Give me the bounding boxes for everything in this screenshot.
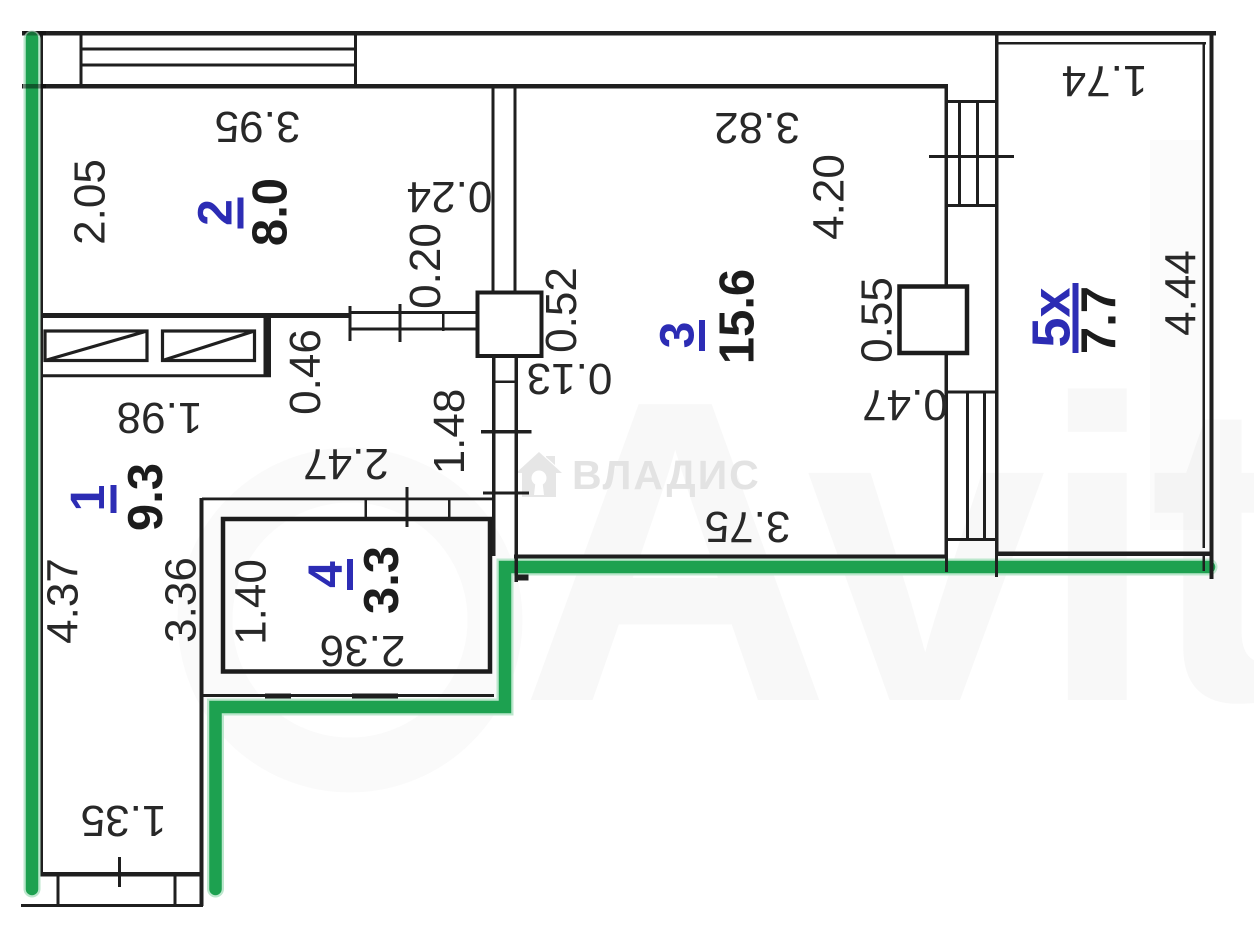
room4 door tick: [406, 487, 409, 527]
svg-text:2.36: 2.36: [320, 626, 406, 675]
sill divider a: [57, 872, 60, 907]
svg-text:3.36: 3.36: [157, 557, 206, 643]
tick over green x997: [995, 556, 998, 577]
room 1 underline: [111, 485, 117, 513]
svg-text:1.74: 1.74: [1062, 56, 1148, 105]
room4 bottom door jamb b: [352, 694, 398, 701]
wall room2 bottom: [40, 313, 350, 318]
wall below S1 left line: [492, 356, 496, 556]
svg-text:4: 4: [300, 561, 353, 588]
window W3 top line: [945, 391, 999, 394]
room 4 underline: [347, 559, 353, 590]
svg-text:3.75: 3.75: [705, 502, 791, 551]
balcony outer right wall: [1210, 31, 1214, 558]
window W1 line a: [80, 48, 357, 51]
green highlight left wall underlay: [24, 39, 41, 889]
wall balcony left: [995, 31, 999, 556]
shaft square S2: [900, 287, 968, 354]
room4 outer top: [202, 498, 494, 501]
tick over green x947: [945, 556, 948, 572]
sill room1 bottom: [21, 904, 203, 907]
tick dimension 4.20: [929, 155, 1014, 158]
room4 inner thick box: [223, 519, 490, 672]
room4 door jamb right: [448, 498, 451, 517]
wall top inner: [22, 84, 948, 89]
svg-text:3: 3: [652, 322, 705, 349]
svg-text:3.3: 3.3: [355, 546, 409, 614]
tick dimension 1.35: [118, 857, 121, 887]
svg-text:8.0: 8.0: [244, 178, 298, 246]
green highlight bottom path underlay: [216, 567, 1210, 889]
wall thin double upper: [350, 311, 478, 314]
svg-text:1.40: 1.40: [227, 559, 276, 645]
svg-text:9.3: 9.3: [119, 463, 173, 531]
svg-text:1: 1: [62, 485, 115, 512]
tick over green right end: [1210, 556, 1214, 579]
wall room1 bottom: [38, 872, 203, 877]
svg-text:2.47: 2.47: [303, 439, 389, 488]
window W1 line b: [80, 64, 357, 67]
wall left outer: [39, 31, 43, 876]
giant faint watermark ring: [205, 475, 495, 765]
svg-text:0.13: 0.13: [527, 354, 613, 403]
tick dimension x400: [399, 304, 402, 342]
balcony outer bottom wall: [997, 552, 1214, 557]
svg-text:4.44: 4.44: [1157, 250, 1206, 336]
svg-text:2: 2: [190, 199, 243, 226]
svg-text:0.20: 0.20: [401, 223, 450, 309]
room 2 underline: [238, 198, 244, 229]
closet shelf 2: [163, 331, 255, 361]
wall thin double lower: [350, 328, 478, 331]
svg-text:0.24: 0.24: [407, 172, 493, 221]
wall corridor right vertical: [200, 498, 204, 906]
shaft square S1: [478, 293, 542, 357]
tick dimension y431: [481, 430, 532, 434]
window W1 left edge: [80, 31, 83, 88]
wall room3 right: [945, 86, 949, 557]
room4 bottom door jamb a: [265, 694, 291, 701]
svg-text:0.55: 0.55: [853, 277, 902, 363]
balcony inner right line: [1203, 42, 1206, 548]
tick near green corner vertical: [515, 558, 519, 582]
balcony inner top line: [998, 42, 1206, 45]
tick near green corner nub: [515, 575, 529, 581]
green highlight left wall: [26, 38, 39, 889]
sill divider b: [174, 872, 177, 907]
tick partition x350: [349, 306, 352, 341]
wall crossing green y84: [24, 84, 46, 89]
tick over green x1204: [1203, 556, 1206, 571]
tick partition x443: [442, 311, 445, 331]
wall above S1 left line: [492, 86, 495, 293]
watermark house icon: [516, 452, 562, 497]
svg-text:15.6: 15.6: [711, 269, 765, 364]
window W3 bar a: [966, 391, 969, 540]
svg-text:7.7: 7.7: [1073, 286, 1127, 354]
room 3 underline: [699, 320, 705, 351]
svg-text:4.20: 4.20: [805, 154, 854, 240]
window W2 bottom line: [945, 204, 999, 207]
closet shelf 1: [45, 331, 147, 361]
window W2 top line: [945, 100, 999, 103]
wall below S1 right line: [515, 356, 519, 558]
tick below S1 y493: [483, 492, 529, 495]
closet right thick wall: [264, 318, 272, 377]
svg-text:4.37: 4.37: [39, 558, 88, 644]
giant faint watermark bar: [1150, 140, 1205, 530]
svg-text:0.52: 0.52: [537, 267, 586, 353]
svg-text:3.95: 3.95: [215, 102, 301, 151]
wall room3 bottom: [514, 555, 948, 561]
svg-text:3.82: 3.82: [714, 103, 800, 152]
window W3 bottom line: [945, 538, 999, 541]
room4 door jamb left: [365, 498, 368, 517]
svg-text:0.47: 0.47: [862, 380, 948, 429]
svg-text:2.05: 2.05: [66, 159, 115, 245]
room4 outer bottom: [203, 694, 494, 697]
window W2 bar b: [976, 101, 979, 206]
room 5x underline: [1073, 283, 1079, 353]
svg-text:ВЛАДИС: ВЛАДИС: [572, 452, 761, 498]
wall above S1 right line: [514, 86, 517, 293]
wall crossing green y33: [24, 31, 46, 36]
window W3 bar b: [983, 391, 986, 540]
svg-text:1.35: 1.35: [81, 796, 167, 845]
svg-text:1.48: 1.48: [425, 389, 474, 475]
closet outer box: [42, 318, 270, 376]
window W2 bar a: [958, 101, 961, 206]
tick below S1 y382: [493, 381, 515, 384]
wall top outer: [22, 31, 1216, 36]
svg-text:0.46: 0.46: [281, 329, 330, 415]
window W1 right edge: [354, 31, 357, 88]
svg-text:1.98: 1.98: [117, 393, 203, 442]
green highlight bottom path: [216, 567, 1210, 889]
